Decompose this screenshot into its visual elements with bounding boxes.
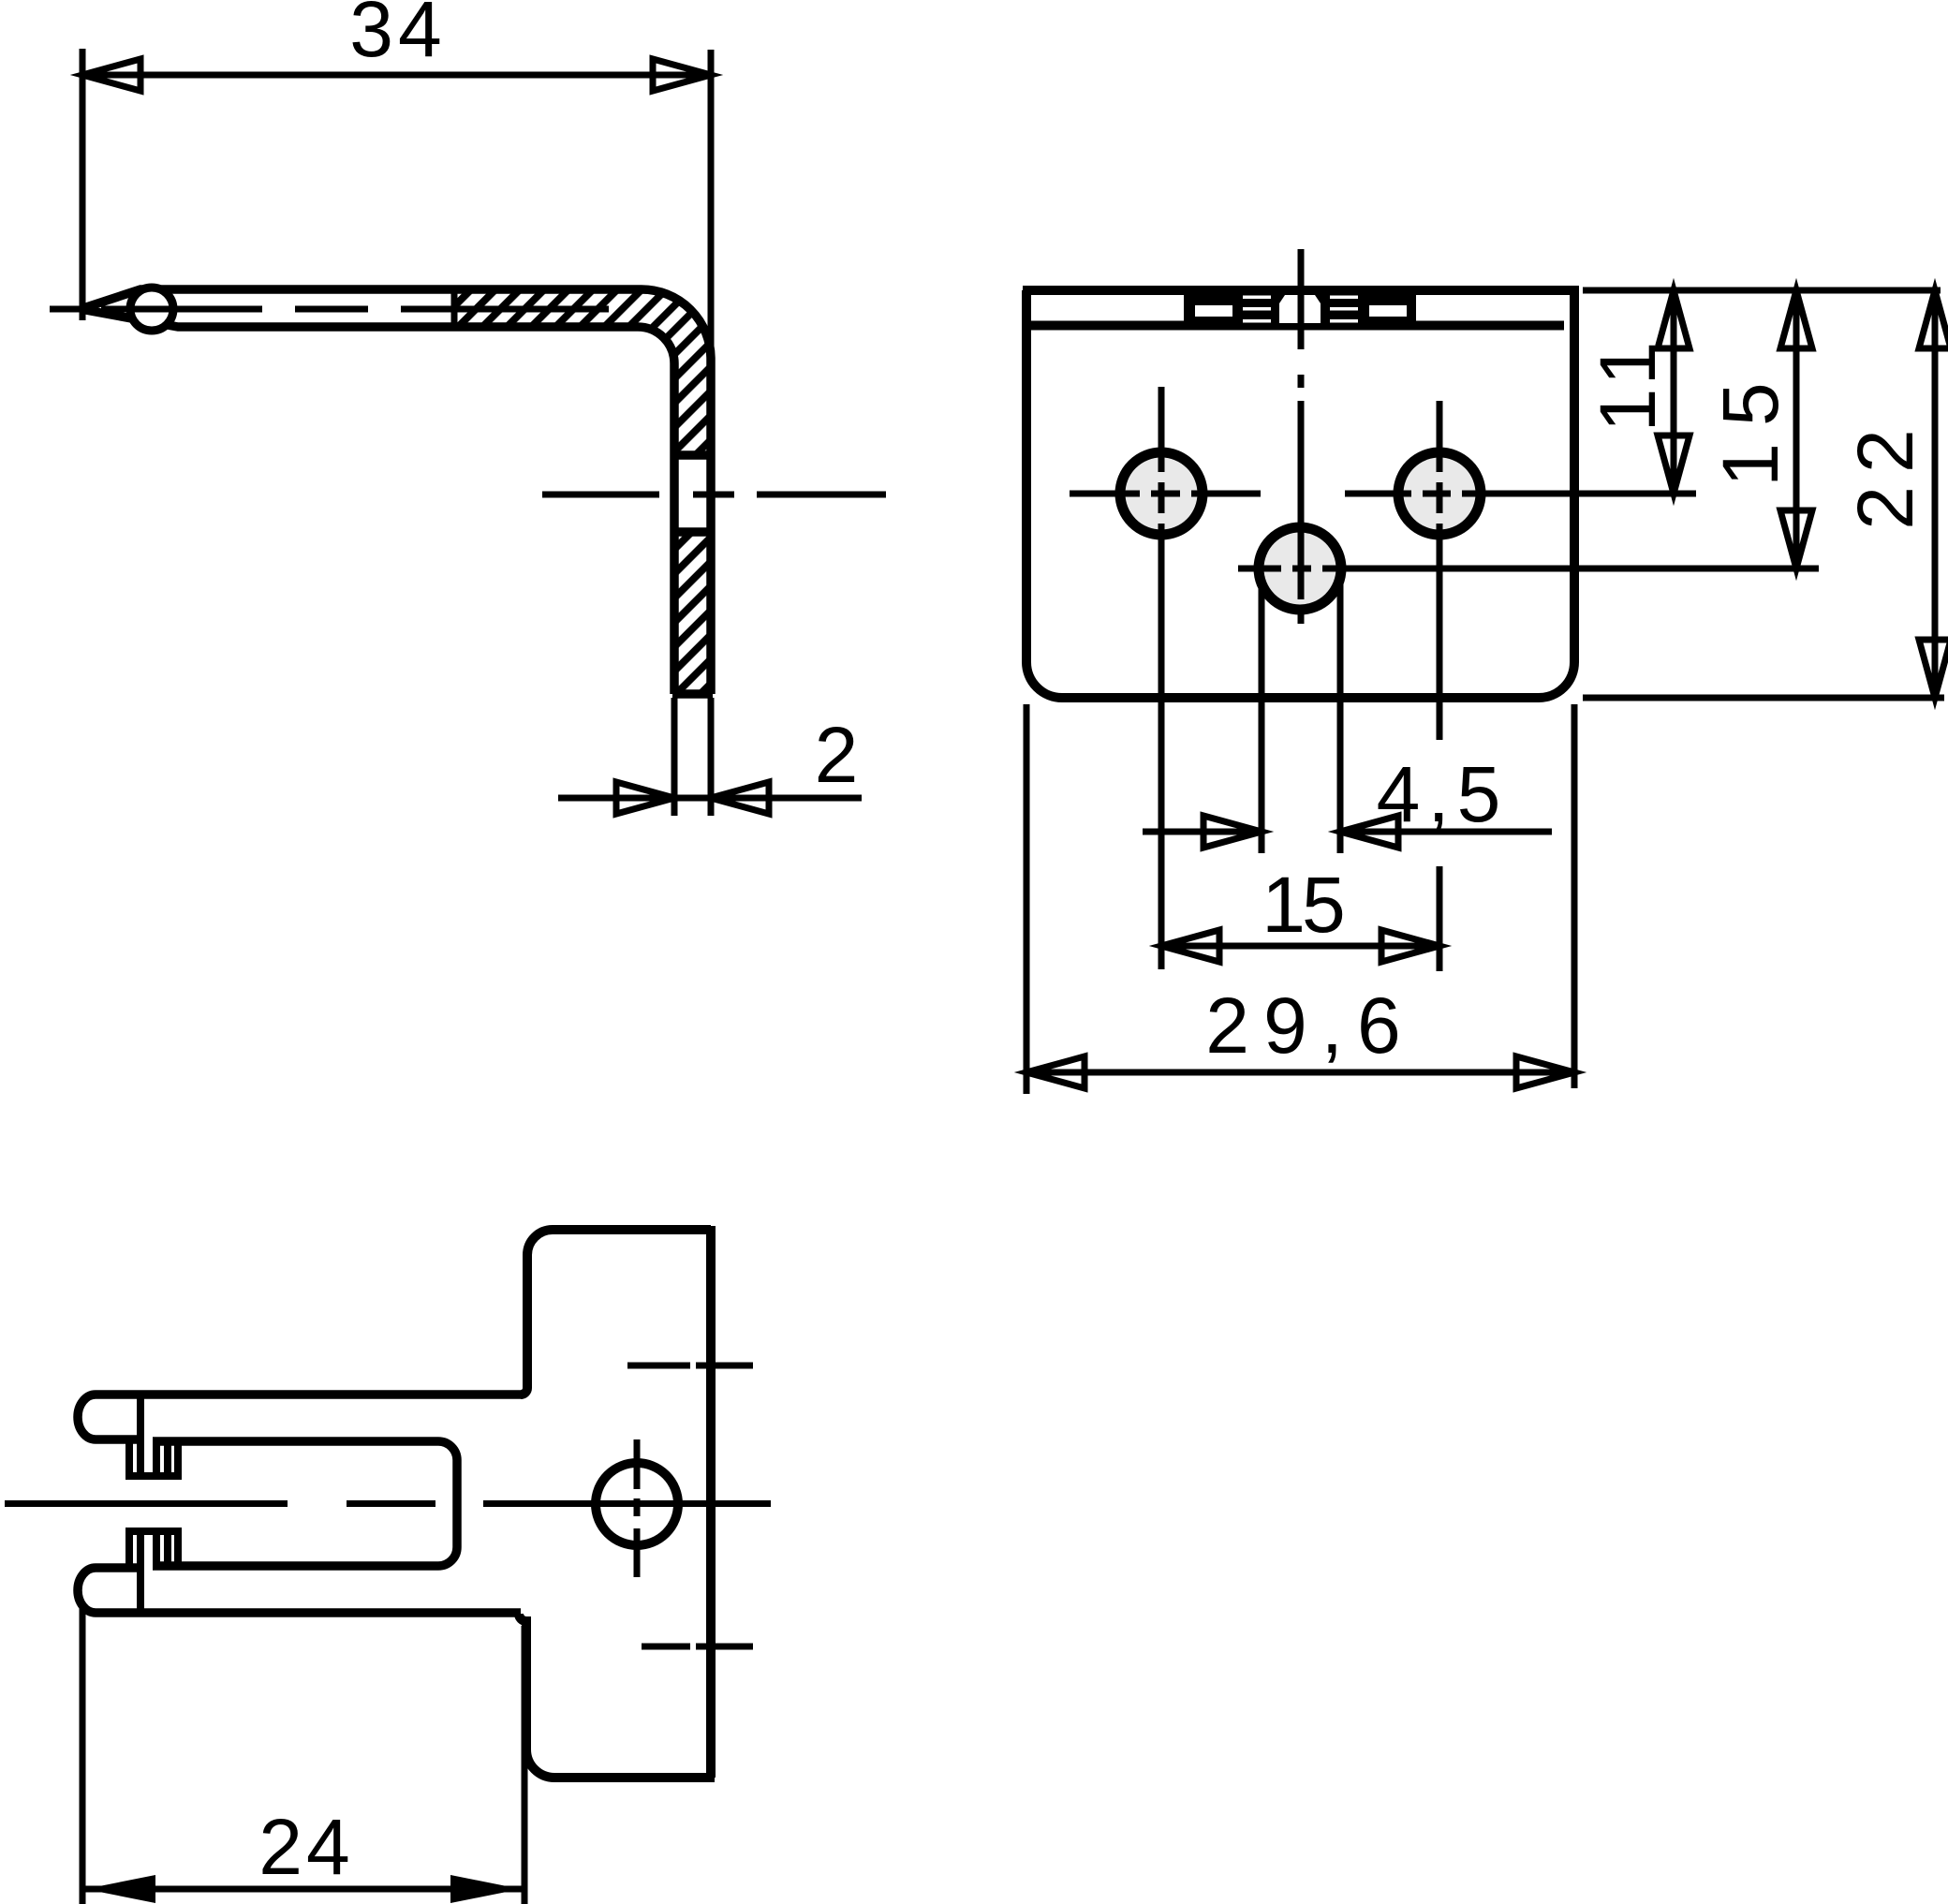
dimension 24: extension line left bbox=[80, 1605, 86, 1904]
upper prong bbox=[78, 1395, 523, 1439]
hole left (gray filled) bbox=[1120, 452, 1203, 535]
svg-text:22: 22 bbox=[1841, 416, 1929, 529]
vertical centerline of view (dash-dot) bbox=[1298, 249, 1305, 624]
dimension 4,5: arrow left (pointing right) bbox=[1203, 816, 1262, 848]
dimension 34: extension line left bbox=[80, 49, 86, 320]
dimension 15 right: dimension line bbox=[1793, 290, 1800, 568]
dimension 2: dimension line bbox=[558, 795, 862, 802]
left hole horizontal centerline bbox=[1070, 491, 1261, 497]
dimension 15 right: arrow up bbox=[1780, 290, 1812, 348]
dimension 29,6: arrow right bbox=[1516, 1056, 1574, 1088]
dimension 34: arrow right bbox=[653, 59, 711, 91]
middle hole tangent extension line left bbox=[1259, 576, 1265, 853]
white dash left in block bbox=[1195, 305, 1232, 317]
dimension 22: arrow up bbox=[1919, 290, 1948, 348]
dimension 11: dimension line bbox=[1671, 290, 1677, 494]
dimension 24: extension line right bbox=[522, 1626, 528, 1904]
dimension 22: dimension line bbox=[1932, 290, 1939, 698]
dimension 15 bottom: dimension line bbox=[1161, 943, 1439, 950]
middle hole tangent extension line right bbox=[1337, 576, 1344, 853]
svg-text:2: 2 bbox=[815, 711, 859, 799]
tongue (middle latch) bbox=[153, 1441, 457, 1566]
front plate outline bbox=[1023, 290, 1579, 698]
white dash right in block bbox=[1369, 305, 1407, 317]
bottom edge extension line to the right bbox=[1583, 695, 1944, 701]
crimped tongue block in band (black) bbox=[1184, 290, 1416, 330]
middle hole horizontal centerline, extended right as ext line for dim 15 bbox=[1238, 566, 1819, 572]
svg-text:1: 1 bbox=[1584, 389, 1672, 433]
upper transverse dash-dot line (bend mark) bbox=[627, 1363, 753, 1369]
dimension 22: arrow down bbox=[1919, 640, 1948, 698]
dimension 2: extension line left bbox=[671, 698, 678, 816]
sheet bottom surface line with tapered tip bbox=[81, 309, 674, 694]
white keystone window at center of block bbox=[1279, 295, 1321, 323]
dimension 11: arrow down bbox=[1658, 435, 1690, 494]
dimension 34: extension line right bbox=[708, 50, 715, 365]
dimension 15 bottom: arrow left bbox=[1161, 930, 1219, 962]
dimension 4,5: arrow right (pointing left) bbox=[1340, 816, 1398, 848]
dimension 24: arrow right (filled) bbox=[450, 1875, 521, 1903]
horizontal centerline of arm (dash-dot) bbox=[50, 306, 609, 313]
dimension 34: dimension line bbox=[82, 72, 711, 79]
top edge extension line to the right bbox=[1583, 288, 1941, 294]
dimension 2: extension line right bbox=[708, 698, 715, 816]
hole in plate bbox=[596, 1463, 678, 1545]
lower tab above prong bbox=[125, 1531, 182, 1613]
hole vertical centerline bbox=[634, 1439, 641, 1577]
dimension 15 bottom: arrow right bbox=[1381, 930, 1439, 962]
right plate outline bbox=[519, 1226, 715, 1778]
dimension 2: arrow right (pointing left) bbox=[711, 782, 769, 814]
plate top-left corner and left edge bbox=[521, 1230, 553, 1395]
dimension 11: arrow up bbox=[1658, 290, 1690, 348]
main horizontal centerline of plan view bbox=[5, 1500, 771, 1507]
svg-text:34: 34 bbox=[349, 0, 446, 73]
svg-text:29,6: 29,6 bbox=[1205, 982, 1415, 1070]
hole window boundary upper in vertical arm bbox=[674, 450, 711, 460]
dimension 29,6: arrow left bbox=[1026, 1056, 1085, 1088]
dimension 34: arrow left bbox=[82, 59, 140, 91]
three white lines right in block bbox=[1330, 296, 1358, 300]
dimension 2: arrow left (pointing right) bbox=[616, 782, 674, 814]
left hole vertical centerline bbox=[1158, 387, 1165, 969]
sheet end face at bottom of vertical arm bbox=[672, 689, 713, 699]
dimension 15 right: arrow down bbox=[1780, 510, 1812, 568]
lower prong bbox=[78, 1568, 521, 1613]
upper tab below prong bbox=[125, 1395, 182, 1476]
right hole vertical centerline bbox=[1437, 401, 1443, 971]
hole window boundary lower in vertical arm bbox=[674, 527, 711, 537]
dimension 24: dimension line bbox=[82, 1886, 523, 1893]
lower transverse dash-dot line (bend mark) bbox=[642, 1644, 753, 1650]
sheet top surface line with tapered tip bbox=[81, 289, 711, 694]
hole right (gray filled) bbox=[1398, 452, 1481, 535]
svg-text:15: 15 bbox=[1262, 861, 1343, 949]
hole middle lower (gray filled) bbox=[1259, 527, 1341, 610]
fold band second line bbox=[1031, 321, 1564, 331]
dimension 29,6: dimension line bbox=[1026, 1070, 1574, 1076]
svg-text:1: 1 bbox=[1584, 342, 1672, 386]
slot window boundary in horizontal arm bbox=[451, 291, 458, 325]
dimension 24: arrow left (filled) bbox=[85, 1875, 155, 1903]
dimension 29,6: extension line right bbox=[1572, 704, 1578, 1088]
three white lines left in block bbox=[1243, 296, 1271, 300]
hatched section area of bent sheet bbox=[454, 289, 711, 455]
dimension 4,5: dimension line bbox=[1143, 829, 1552, 835]
small circle in section at tip (curled end cross-section) bbox=[130, 288, 173, 331]
dimension 29,6: extension line left bbox=[1024, 704, 1030, 1094]
svg-text:4,5: 4,5 bbox=[1377, 750, 1509, 838]
svg-text:24: 24 bbox=[258, 1803, 353, 1891]
right hole horizontal centerline, extended right as ext line for dim 11 bbox=[1345, 491, 1696, 497]
svg-text:15: 15 bbox=[1706, 365, 1794, 486]
transverse centerline across vertical arm bbox=[542, 492, 886, 498]
